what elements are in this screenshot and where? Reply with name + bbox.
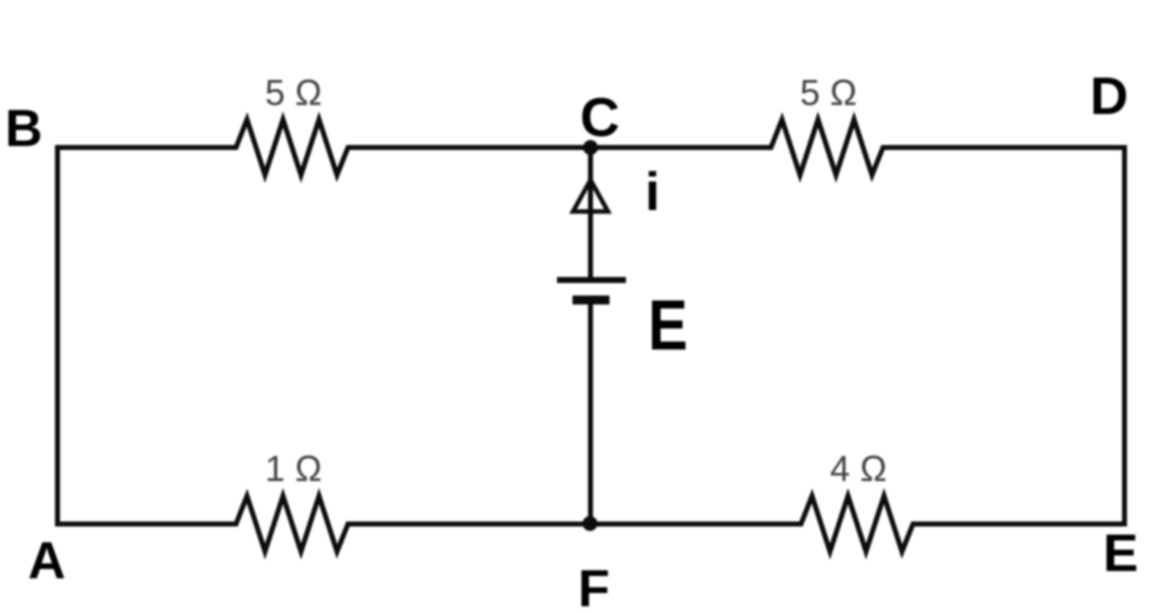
svg-text:5 Ω: 5 Ω [265, 72, 322, 113]
svg-text:E: E [648, 286, 688, 365]
svg-text:E: E [1103, 524, 1138, 583]
svg-text:4 Ω: 4 Ω [830, 448, 887, 489]
svg-text:B: B [5, 100, 43, 158]
svg-text:C: C [580, 86, 620, 148]
svg-text:F: F [578, 560, 610, 613]
svg-text:D: D [1090, 67, 1128, 126]
svg-text:5 Ω: 5 Ω [800, 72, 857, 113]
svg-text:i: i [645, 162, 660, 222]
svg-text:A: A [28, 532, 66, 590]
svg-text:1 Ω: 1 Ω [265, 448, 322, 489]
